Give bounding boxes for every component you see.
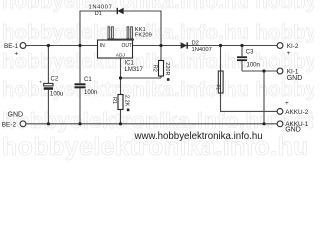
junction C3 top node xyxy=(240,44,243,47)
svg-text:1N4007: 1N4007 xyxy=(89,5,113,11)
terminal KI-2 xyxy=(277,43,283,49)
resistor R1 2.2K xyxy=(111,95,130,112)
junction C2 gnd node xyxy=(47,122,50,125)
wire R1 vertical xyxy=(120,78,122,124)
junction C1 / D1 input node xyxy=(78,44,81,47)
svg-text:BE-1: BE-1 xyxy=(4,43,19,50)
svg-text:GND: GND xyxy=(287,75,303,82)
watermark row 4 xyxy=(2,79,320,102)
svg-text:FK209: FK209 xyxy=(135,33,152,39)
terminal KI-1 xyxy=(277,68,283,74)
watermark row 3 xyxy=(2,51,320,74)
svg-text:OUT: OUT xyxy=(122,43,133,49)
wire BE-1 input rail xyxy=(26,45,97,47)
svg-text:2.2K: 2.2K xyxy=(124,95,130,107)
svg-text:+: + xyxy=(15,51,19,58)
terminal BE-2 xyxy=(20,121,26,127)
wire OUT rail xyxy=(133,45,277,47)
svg-text:C1: C1 xyxy=(84,77,92,83)
svg-text:GND: GND xyxy=(8,112,24,119)
svg-text:LM317: LM317 xyxy=(125,67,144,73)
heatsink KK1 FK209 xyxy=(107,27,152,41)
svg-text:1N4007: 1N4007 xyxy=(192,47,212,53)
wire KI-1 gnd xyxy=(242,70,277,72)
junction LM317 output / D1 / R2 node xyxy=(159,44,162,47)
svg-text:220R: 220R xyxy=(164,62,170,75)
junction ADJ / R1 / R2 node xyxy=(119,76,122,79)
fuse F1 xyxy=(214,71,223,93)
svg-text:AKKU-2: AKKU-2 xyxy=(285,109,309,116)
svg-text:+: + xyxy=(39,80,42,85)
junction R1 gnd node xyxy=(119,122,122,125)
diode D1 1N4007 xyxy=(89,5,124,18)
svg-text:F1: F1 xyxy=(214,85,220,91)
svg-text:D2: D2 xyxy=(192,41,199,47)
wire bottom gnd rail xyxy=(26,123,276,125)
svg-text:C3: C3 xyxy=(246,50,254,56)
capacitor C3 100n xyxy=(237,50,260,69)
wire ADJ pin xyxy=(120,58,122,78)
svg-text:R2: R2 xyxy=(151,65,157,72)
svg-text:GND: GND xyxy=(285,126,301,133)
junction AKKU-1 gnd node xyxy=(262,122,265,125)
watermark row 2 xyxy=(2,22,320,45)
watermark row 6 xyxy=(2,133,320,162)
svg-text:100n: 100n xyxy=(84,90,97,96)
capacitor C2 100u xyxy=(39,77,63,98)
watermark row 1 xyxy=(2,0,320,14)
junction C1 gnd node xyxy=(78,122,81,125)
svg-text:100u: 100u xyxy=(50,92,63,98)
watermark row 5 xyxy=(2,108,320,134)
svg-text:100n: 100n xyxy=(247,63,260,69)
wire C3 vertical xyxy=(241,46,243,72)
svg-text:IC1: IC1 xyxy=(125,60,135,66)
svg-text:+: + xyxy=(285,100,289,107)
svg-text:C2: C2 xyxy=(51,77,59,83)
svg-text:www.hobbyelektronika.info.hu: www.hobbyelektronika.info.hu xyxy=(134,131,263,142)
wire R2 bottom stub xyxy=(160,76,162,78)
wire ADJ horizontal xyxy=(121,77,162,79)
terminal AKKU-2 xyxy=(277,109,283,115)
svg-text:D1: D1 xyxy=(95,11,102,17)
resistor R2 220R xyxy=(151,61,170,81)
wire C2 vertical xyxy=(47,46,49,124)
wire F1 branch xyxy=(221,46,278,112)
wire C1 vertical xyxy=(79,46,81,124)
terminal BE-1 xyxy=(20,43,26,49)
svg-text:R1: R1 xyxy=(111,97,117,104)
wire GND dropper xyxy=(263,71,265,124)
svg-text:ADJ: ADJ xyxy=(116,52,126,58)
wire top D1 rail xyxy=(80,11,161,46)
svg-text:BE-2: BE-2 xyxy=(2,122,17,129)
wire R2 top stub xyxy=(160,46,162,61)
svg-text:IN: IN xyxy=(100,43,105,49)
junction F1 top node xyxy=(219,44,222,47)
regulator IC1 LM317 xyxy=(98,40,144,73)
junction C2 top node xyxy=(47,44,50,47)
svg-text:+: + xyxy=(287,50,291,57)
junction KI-1 gnd node xyxy=(262,69,265,72)
diode D2 1N4007 xyxy=(181,41,212,54)
terminal AKKU-1 xyxy=(277,121,283,127)
capacitor C1 100n xyxy=(75,77,98,96)
